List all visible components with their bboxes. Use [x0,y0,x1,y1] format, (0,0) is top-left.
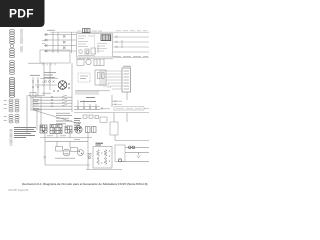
wire [125,147,149,152]
small block RC5 [86,127,97,133]
capacitor C3 [88,154,92,159]
diode D3 dots [101,150,110,163]
wire (bottom right run) [118,161,149,163]
svg-text:PDF: PDF [9,7,34,21]
value labels (mid) [44,73,56,78]
relay CR1 (box with contacts) [95,70,106,85]
switch S2 (box) [56,147,63,152]
terminal block T3 [100,117,107,123]
wire [126,113,128,122]
control bus wires [33,97,72,112]
terminal text row (top right) [113,56,148,58]
box divider [94,34,96,57]
value label above connector [123,65,131,67]
resistor R3 chain [97,150,100,165]
wire [33,77,38,96]
wire [113,113,115,122]
thermostat TP2 [137,152,140,157]
terminal marks [42,41,45,44]
diode D2 (dark dot) [119,159,122,162]
stator winding W1 (coil stack) [9,30,14,58]
resistor R4 chain [104,150,107,165]
capacitor C1 (cluster above box) [83,29,91,33]
PC board PC2 (box) [93,147,112,169]
auxiliary winding W6 (coil stack pair) [9,114,19,123]
exciter winding W3 (coil stack) [9,60,14,74]
rotor winding W2 (hatched core bar) [20,30,23,52]
switch contact mark [44,156,46,158]
contact circles row [44,80,59,92]
wire [35,79,58,86]
terminal marks on output lines [116,36,123,48]
svg-text:OM-2257 Página 98: OM-2257 Página 98 [8,188,28,192]
value label row [42,92,51,94]
tiny labels under wire [47,136,80,140]
auxiliary winding W5 (coil stack pair) [9,99,19,112]
label VR1 [96,143,104,145]
value labels in box top [78,36,94,47]
terminal marks on wires [32,81,45,89]
capacitor C5 (small circles in box) [86,51,89,54]
receptacle RC3 [65,126,72,133]
value labels along top bus [116,30,147,32]
wire [114,135,116,141]
wire [28,95,45,97]
terminal board TB2 (dense text) [74,119,81,130]
wire (bottom center run) [86,169,122,171]
connector PLG1 [122,68,131,92]
output bus lines (right) [113,37,149,58]
wire [126,92,128,100]
value label in Z1 [33,100,39,109]
resistor R2 row [83,115,98,119]
capacitor C2 (block) [94,59,104,66]
wire (long right run 2) [74,112,149,114]
switch S1 marks on bus [51,95,67,107]
label box PC1 (dashed) [78,73,90,82]
wire verticals [45,141,88,169]
winding lead labels [4,101,8,121]
wire rows (right, short) [100,100,122,109]
capacitor C4 (dark pair) [129,146,135,149]
choke L1 (hatched bar) [10,130,13,146]
value labels above box [77,30,102,32]
box CB1 [115,145,125,162]
wire row under receptacles [40,137,92,139]
lower circuit main wire [45,140,88,142]
receptacle RC1 (grid block) [40,125,47,133]
main field winding W4 (coil stack) [9,78,15,98]
wire drops [45,133,88,142]
wire (top bus) [50,31,149,33]
wire [76,58,113,60]
fan motor FM (circle) [86,59,91,64]
rectifier SR1 (bridge) [58,81,67,90]
wire (mid bus right) [74,100,100,109]
voltage regulator box U1 [77,34,113,58]
wire (bottom run) [45,164,90,166]
diode D1 marks [68,83,70,89]
value labels rows (center) [56,113,72,124]
terminal comb row [75,91,110,95]
legend text block [14,128,36,138]
transformer T1 (small box left of fan motor) [77,60,84,66]
value labels inside box [97,44,107,52]
socket RC4 (round) [75,126,82,133]
receptacle RC2 (grid block) [50,125,62,134]
wire [44,63,50,95]
wire [71,63,73,97]
wire harness (fan into connector) [100,71,122,89]
wire (long right run) [144,107,149,109]
wire (right lower bus) [115,140,149,142]
PDF badge [0,0,45,27]
wire [26,95,28,133]
contact marks under bus [77,108,103,110]
text inside PC1 [80,76,88,79]
wire [111,95,113,107]
wire [28,62,45,64]
box J2 [110,122,118,135]
brush connection rows (left of box) [44,32,76,53]
stator frame box [40,50,70,63]
pilot light PL1 (circle) [78,150,84,156]
terminal block T2 [30,93,36,98]
svg-text:Ilustración 9-1. Diagrama de C: Ilustración 9-1. Diagrama de Circuito pa… [22,182,148,186]
thermostat TP1 (box) [71,148,78,152]
node bus labels [80,98,96,102]
reactor Z1 (box) [31,97,41,110]
label bar J3 [114,107,144,110]
motor M1 (circle) [63,149,70,156]
resistor R1 (hatched block) [101,35,111,41]
components inside regulator box [78,45,98,60]
wire [37,110,41,130]
terminal ticks under frame box [43,63,55,66]
value label 3.5T [30,74,40,76]
wire (diagonal lead) [33,110,80,124]
schematic strokes [4,29,150,170]
value label (top) [47,29,55,31]
wire [55,157,75,159]
